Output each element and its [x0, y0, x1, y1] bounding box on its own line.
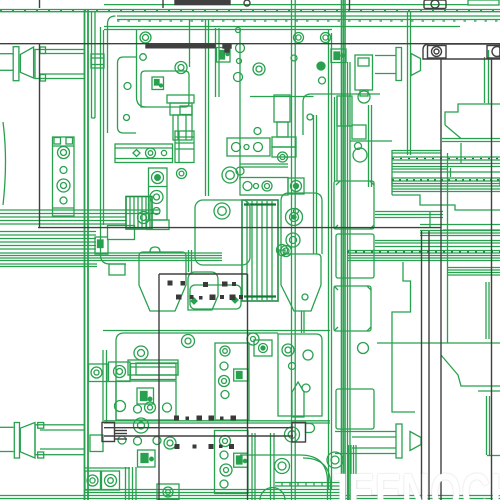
right stepped cone [442, 138, 500, 140]
right mid lines [375, 211, 443, 213]
dark clamp rounded rect right [423, 44, 500, 59]
pocket outline mid [195, 200, 250, 265]
left slide column [53, 137, 75, 216]
right bottom rails [486, 396, 488, 455]
ring on cut line [134, 418, 149, 433]
main horizontal centerline top [0, 43, 500, 45]
small circle right center [358, 343, 369, 354]
parting line dark [38, 227, 441, 229]
top-left puller shaft [0, 53, 14, 55]
D-lug right of dark block [306, 424, 315, 433]
locating block right top [355, 55, 373, 90]
big ring center [286, 209, 303, 226]
ejector housing outline [116, 333, 278, 420]
circles column mid top [236, 28, 241, 33]
ejector plate right lower [215, 431, 249, 494]
mid plate vertical pair [215, 28, 217, 97]
trapezoid core right [281, 254, 321, 311]
latch pentagon lower [292, 382, 304, 417]
dark bar under centerline [146, 44, 215, 48]
right lower step shape [392, 262, 415, 412]
insert rect R3 [334, 286, 371, 331]
rounded pocket around screw rows [190, 285, 241, 309]
latch bar horizontal [115, 144, 173, 163]
left stack 2 [0, 252, 222, 254]
big ring lower center [275, 459, 290, 474]
bottom bolt blocks [85, 471, 101, 490]
hatch block center border [242, 200, 278, 301]
corner ticks [334, 181, 374, 229]
center rails [291, 0, 293, 500]
right step profile [392, 195, 500, 210]
small trapezoid pocket [188, 272, 218, 310]
cutting plane line lower [104, 427, 293, 429]
left plate bottom corner [101, 225, 127, 264]
support plate right of box [278, 334, 322, 416]
left platen arc [3, 122, 6, 205]
hex bolt below bracket [278, 152, 288, 162]
hatch block center stripes [246, 201, 248, 300]
top right step [445, 104, 500, 125]
insert rect R2 [336, 234, 374, 278]
dark end block right [292, 423, 306, 443]
icon box right top [331, 49, 346, 63]
bottom icon box [138, 450, 156, 467]
screw marks middle row y416 [174, 416, 179, 421]
top dark bar [175, 1, 230, 5]
dark screw center top [223, 44, 231, 52]
left vertical section line [39, 0, 41, 8]
cavity plate outline upper right [281, 193, 322, 254]
right rails pair [407, 12, 409, 155]
lower left block under trapezoid [128, 360, 178, 375]
section box [159, 273, 248, 275]
top rail lines [0, 9, 500, 11]
hatch block left stripes [129, 197, 131, 229]
right pin stack outline [391, 150, 393, 195]
bolt block row left [89, 364, 109, 382]
main plate right edge [328, 29, 330, 490]
bottom right hatch rails [348, 445, 350, 500]
ejector plate right upper [215, 343, 249, 420]
bottom-left puller shaft [0, 426, 14, 428]
trapezoid core left [139, 252, 186, 311]
dark end block left [102, 423, 115, 442]
pocket with icon top [141, 71, 189, 107]
hex bolt left of unit [138, 212, 150, 224]
mating blocks center [272, 137, 296, 147]
rails below locating block [368, 105, 370, 187]
icon box G [217, 48, 231, 63]
hatch block left border [126, 197, 152, 230]
top-right puller shaft [375, 55, 396, 57]
screw marks row y445 [175, 444, 180, 449]
green diamonds in box [191, 298, 197, 304]
right ejector band [347, 250, 500, 252]
big bolt ring bottom right [327, 452, 343, 468]
top center circles [294, 33, 304, 43]
insert rect R1 [334, 181, 374, 229]
small icon box left edge [95, 237, 108, 254]
watermark JEENOCH [326, 462, 500, 500]
right lower bands [420, 230, 500, 232]
screw marks row 2 in section box [176, 295, 182, 300]
insert rect R4 [336, 389, 374, 429]
step block right of rails bottom [90, 435, 103, 452]
target icon square [254, 340, 272, 356]
crossbar [131, 364, 177, 380]
verticals below icon [125, 467, 127, 500]
block right of latch bar [175, 131, 194, 163]
bottom lines [85, 489, 345, 491]
bottom arc cutout [260, 488, 285, 500]
plate inner verticals top [136, 29, 138, 97]
bottom-right puller shaft [335, 431, 396, 433]
top plate boss bolt [140, 32, 151, 43]
rings upper [182, 335, 195, 348]
main plate left edge [100, 27, 102, 225]
right pin stack bands [392, 156, 500, 158]
guide rails above dark block [102, 350, 104, 422]
ring below [286, 233, 300, 247]
sprue bush unit [337, 96, 352, 126]
upper mating column [274, 95, 290, 122]
right rail dark verticals [421, 231, 423, 500]
left vertical pocket with holes [108, 16, 116, 133]
vertical latch unit [149, 168, 168, 220]
verticals below dark box right [251, 433, 253, 500]
ring at hatch right [277, 245, 288, 256]
lower left plate with icon [116, 381, 176, 420]
housing corner lower right [240, 455, 328, 500]
screw marks row 1 in section box [168, 281, 173, 286]
rings mid center [222, 167, 238, 183]
bolt block right [288, 178, 304, 194]
ring below block [177, 169, 187, 179]
bolt ring on cut line right [285, 427, 300, 442]
small blocks below pocket [167, 95, 194, 103]
bracket with holes [227, 138, 270, 156]
comb strip [275, 482, 345, 484]
left tie-bar rails [84, 10, 86, 500]
left stack lines [0, 209, 160, 211]
top clamp bolt dark [424, 0, 446, 9]
top right green cap [468, 0, 499, 5]
bottom circles row [118, 436, 126, 444]
